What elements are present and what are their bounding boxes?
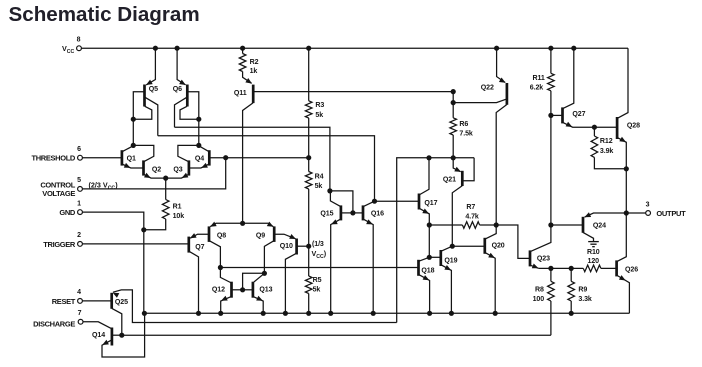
resistor R4 bbox=[305, 172, 312, 190]
arrow Q26 emitter (NPN) bbox=[619, 275, 626, 280]
junction rail / R5 bottom bbox=[306, 311, 311, 316]
svg-text:TRIGGER: TRIGGER bbox=[43, 240, 76, 249]
transistor Q15 base bar bbox=[340, 205, 343, 220]
junction rail / Q13 emitter bbox=[261, 311, 266, 316]
svg-text:Q9: Q9 bbox=[256, 233, 265, 240]
junction VCC rail / Q6 emitter bbox=[175, 46, 180, 51]
wire R6 bottom lead bbox=[452, 135, 454, 158]
wire Q6 emitter from VCC bbox=[177, 48, 186, 85]
junction R11 / Q27 base bbox=[548, 113, 553, 118]
svg-text:8: 8 bbox=[77, 37, 81, 44]
transistor Q24 base bar bbox=[582, 217, 585, 233]
junction Q16 collector node bbox=[372, 199, 377, 204]
svg-text:Q25: Q25 bbox=[115, 299, 128, 306]
svg-text:5k: 5k bbox=[315, 112, 323, 119]
wire R6 top lead bbox=[452, 103, 454, 118]
wire R7 right lead bbox=[480, 224, 497, 226]
wire Q25 collector bbox=[112, 308, 122, 335]
svg-text:Q5: Q5 bbox=[149, 86, 158, 93]
wire Q5 collector east to Q16 node bbox=[158, 136, 375, 201]
wire R5 bottom lead bbox=[308, 294, 310, 314]
svg-text:Q26: Q26 bbox=[625, 267, 638, 274]
wire R7 left lead bbox=[429, 224, 462, 226]
wire R3 bottom lead bbox=[308, 118, 310, 158]
wire discharge riser bbox=[397, 158, 474, 323]
svg-text:3: 3 bbox=[646, 201, 650, 208]
wire Q8 collector bbox=[209, 241, 220, 268]
wire Q5 emitter from VCC bbox=[146, 48, 155, 85]
wire R4 bottom lead bbox=[308, 189, 310, 246]
junction node A / Q1-Q2 collectors bbox=[131, 143, 136, 148]
junction VCC rail / R3 bbox=[306, 46, 311, 51]
resistor R1 bbox=[162, 200, 169, 220]
wire Q4 collector bbox=[199, 146, 210, 152]
junction Q15/Q16 bases bbox=[350, 210, 355, 215]
wire Q23 emitter bbox=[530, 265, 539, 268]
junction R9 top bbox=[569, 266, 574, 271]
junction rail / gnd column / Q14 emitter bbox=[142, 311, 147, 316]
junction Q15 collector node bbox=[327, 188, 332, 193]
wire R12 bottom lead bbox=[594, 157, 626, 168]
transistor Q22 base bar bbox=[506, 83, 509, 105]
svg-text:Q23: Q23 bbox=[537, 256, 550, 263]
junction Q11 base / Q22 base upper bbox=[451, 89, 456, 94]
pin 7 DISCHARGE terminal bbox=[78, 319, 83, 324]
junction rail / Q12 emitter bbox=[218, 311, 223, 316]
wire Q20 collector node to Q23 base bbox=[496, 225, 530, 258]
svg-text:3.3k: 3.3k bbox=[578, 296, 591, 303]
wire Q24 base bbox=[551, 224, 583, 226]
resistor R11 bbox=[548, 73, 555, 91]
svg-text:(1/3: (1/3 bbox=[312, 241, 324, 248]
wire R11 top lead bbox=[550, 48, 552, 73]
wire Q21 collector bbox=[452, 186, 462, 246]
wire Q17 emitter node down bbox=[428, 225, 430, 257]
transistor Q11 base bar bbox=[252, 85, 255, 104]
wire Q2 emitter bbox=[144, 174, 166, 178]
wire R10 to Q26 base bbox=[601, 267, 617, 269]
wire Q4 emitter to Q3 base bbox=[189, 164, 209, 168]
junction VCC rail / R2 bbox=[240, 46, 245, 51]
junction rail / Q18 emitter bbox=[427, 311, 432, 316]
arrow Q19 emitter (NPN) bbox=[444, 265, 451, 270]
resistor R8 bbox=[548, 281, 555, 301]
arrow Q28 emitter (NPN) bbox=[619, 137, 626, 142]
transistor Q5 base bar bbox=[143, 85, 146, 107]
wire Q9 collector bbox=[264, 241, 274, 274]
wire Q8 collector node east to Q18 base bbox=[220, 267, 418, 269]
transistor Q9 base bar bbox=[273, 226, 276, 242]
wire Q25 emitter bbox=[113, 290, 397, 323]
svg-text:Q28: Q28 bbox=[627, 123, 640, 130]
wire gnd pin to ground rail bbox=[82, 212, 143, 313]
wire Q3 collector bbox=[178, 145, 199, 161]
svg-text:100: 100 bbox=[533, 296, 545, 303]
arrow Q7 emitter (PNP) bbox=[190, 233, 197, 238]
wire VCC rail bbox=[81, 47, 628, 49]
transistor Q25 base bar bbox=[110, 293, 113, 309]
svg-text:Q6: Q6 bbox=[173, 86, 182, 93]
wire Q10 base bbox=[297, 245, 309, 247]
arrow Q3 emitter (NPN) bbox=[182, 173, 189, 178]
transistor Q17 base bar bbox=[418, 194, 421, 210]
arrow Q9 emitter (PNP) bbox=[267, 222, 274, 227]
svg-text:THRESHOLD: THRESHOLD bbox=[31, 154, 75, 163]
junction Q17 emitter / R7 node bbox=[427, 222, 432, 227]
wire Q5 collector tie hook bbox=[133, 106, 152, 119]
svg-text:Q10: Q10 bbox=[280, 243, 293, 250]
resistor R3 bbox=[305, 101, 312, 118]
arrow Q27 emitter (NPN) bbox=[566, 122, 573, 127]
arrow Q17 emitter (NPN) bbox=[422, 208, 429, 213]
wire Q16 base bbox=[353, 212, 363, 214]
junction rail / Q20 emitter bbox=[493, 311, 498, 316]
junction Q28 base / R12 top bbox=[592, 125, 597, 130]
wire Q9 emitter bbox=[243, 223, 274, 226]
svg-text:Q24: Q24 bbox=[593, 223, 606, 230]
wire Q1 emitter to Q2 base bbox=[122, 164, 144, 168]
wire output column bbox=[625, 169, 627, 213]
resistor R5 bbox=[305, 276, 312, 294]
transistor Q26 base bar bbox=[615, 260, 618, 276]
pin 5 CONTROL VOLTAGE terminal bbox=[78, 187, 83, 192]
arrow Q18 emitter (NPN) bbox=[423, 275, 430, 280]
svg-text:R9: R9 bbox=[578, 286, 587, 293]
arrow Q24 emitter (PNP) bbox=[584, 212, 591, 217]
wire R8 bottom west to Q14 base bbox=[122, 334, 551, 336]
wire 2/3Vcc node to divider bbox=[226, 157, 309, 159]
svg-text:R3: R3 bbox=[315, 102, 324, 109]
junction Q18 collector / Q19 base bbox=[427, 255, 432, 260]
junction VCC rail / Q5 emitter bbox=[153, 46, 158, 51]
junction discharge line / R6 / Q21 emitter bbox=[451, 155, 456, 160]
transistor Q8 base bar bbox=[208, 226, 211, 242]
wire Q22 base bbox=[453, 99, 506, 102]
junction rail / Q7 collector bbox=[196, 311, 201, 316]
wire Q3 emitter bbox=[166, 174, 189, 178]
transistor Q13 base bar bbox=[252, 282, 255, 298]
arrow Q1 emitter (NPN) bbox=[124, 163, 131, 168]
arrow Q25 emitter (PNP) bbox=[113, 293, 120, 298]
wire Q13 collector bbox=[254, 273, 265, 282]
transistor Q10 base bar bbox=[295, 239, 298, 255]
svg-text:VCC): VCC) bbox=[312, 249, 327, 260]
wire Q20 base bbox=[452, 245, 485, 247]
arrow Q11 emitter (PNP) bbox=[245, 78, 252, 84]
wire Q6 collector east to Q15 node bbox=[175, 127, 330, 191]
svg-text:Q13: Q13 bbox=[259, 287, 272, 294]
wire discharge to Q14 collector bbox=[83, 322, 111, 329]
wire R4 top lead bbox=[308, 158, 310, 172]
wire R5 top lead bbox=[308, 246, 310, 276]
wire Q5 second collector down bbox=[145, 97, 158, 136]
wire control voltage to node bbox=[82, 158, 225, 189]
wire Q26 collector bbox=[617, 213, 627, 262]
wire Q11 base east bbox=[253, 91, 453, 93]
svg-text:5k: 5k bbox=[315, 183, 323, 190]
svg-text:Q11: Q11 bbox=[234, 90, 247, 97]
junction Q24 base node bbox=[548, 222, 553, 227]
svg-text:Q22: Q22 bbox=[481, 85, 494, 92]
junction VCC rail / R11 bbox=[548, 46, 553, 51]
transistor Q21 base bar bbox=[461, 171, 464, 186]
svg-text:Q1: Q1 bbox=[127, 156, 136, 163]
junction node B / Q3-Q4 collectors bbox=[196, 143, 201, 148]
transistor Q18 base bar bbox=[417, 260, 420, 276]
wire Q27 emitter to Q28 base bbox=[563, 122, 618, 127]
wire Q8 base to Q7 emitter bbox=[190, 234, 209, 238]
wire Q13 base bbox=[243, 289, 253, 291]
wire R12 top lead bbox=[593, 127, 595, 136]
wire Q23 emitter to R10 bbox=[539, 267, 584, 269]
svg-text:R2: R2 bbox=[250, 59, 259, 66]
resistor R7 bbox=[462, 222, 479, 229]
wire Q18 collector bbox=[419, 257, 430, 261]
svg-text:Q18: Q18 bbox=[421, 267, 434, 274]
wire Q22 emitter bbox=[497, 48, 506, 82]
svg-text:R10: R10 bbox=[587, 249, 600, 256]
svg-text:1k: 1k bbox=[250, 68, 258, 75]
wire Q17 emitter bbox=[419, 208, 429, 225]
wire Q7 collector bbox=[189, 251, 199, 313]
wire Q15 emitter bbox=[331, 219, 341, 313]
wire Q19 collector bbox=[441, 246, 453, 251]
wire Q11 base junction column bbox=[452, 92, 454, 103]
junction Q8/Q9 emitters from Q11 bbox=[240, 221, 245, 226]
junction VCC rail / Q27 collector bbox=[571, 46, 576, 51]
arrow Q23 emitter (NPN) bbox=[532, 263, 539, 268]
svg-text:4.7k: 4.7k bbox=[465, 213, 478, 220]
wire R2 bottom to Q11 emitter bbox=[243, 72, 252, 84]
wire R2 top lead bbox=[242, 48, 244, 53]
svg-text:GND: GND bbox=[59, 208, 76, 217]
wire node A column bbox=[132, 119, 134, 145]
svg-text:6: 6 bbox=[77, 146, 81, 153]
svg-text:Q17: Q17 bbox=[424, 200, 437, 207]
wire Q19 base bbox=[429, 256, 441, 258]
transistor Q2 base bar bbox=[142, 160, 145, 175]
wire R11/Q27 column down bbox=[550, 115, 552, 225]
wire Q12 base bbox=[232, 289, 243, 291]
svg-text:4: 4 bbox=[77, 289, 81, 296]
resistor R6 bbox=[450, 118, 457, 135]
arrow Q4 emitter (NPN) bbox=[201, 163, 208, 168]
wire Q16 collector bbox=[363, 201, 375, 207]
svg-text:3.9k: 3.9k bbox=[600, 148, 613, 155]
wire R1 bottom lead bbox=[144, 219, 166, 230]
wire Q24 emitter bbox=[585, 213, 627, 217]
wire Q20 collector bbox=[485, 225, 496, 239]
pin 8 VCC terminal bbox=[77, 46, 82, 51]
arrow Q5 emitter (PNP) bbox=[146, 80, 153, 85]
wire R1 top lead bbox=[165, 178, 167, 199]
resistor R10 bbox=[583, 265, 601, 272]
svg-text:7: 7 bbox=[78, 310, 82, 317]
wire Q2 collector bbox=[133, 145, 154, 161]
transistor Q4 base bar bbox=[208, 150, 211, 165]
wire R8 bottom lead crossing rail bbox=[550, 301, 552, 335]
wire ground rail bbox=[144, 312, 630, 314]
junction control voltage / Q4 base bbox=[223, 155, 228, 160]
wire R3 top lead bbox=[308, 48, 310, 101]
svg-text:2: 2 bbox=[77, 232, 81, 239]
svg-text:Q7: Q7 bbox=[195, 244, 204, 251]
wire Q13 emitter bbox=[253, 296, 263, 313]
svg-text:Q2: Q2 bbox=[152, 167, 161, 174]
junction rail / Q15 emitter bbox=[328, 311, 333, 316]
junction output node bbox=[624, 210, 629, 215]
wire Q6 collector tie hook bbox=[180, 106, 199, 119]
svg-text:7.5k: 7.5k bbox=[459, 130, 472, 137]
svg-text:Q4: Q4 bbox=[195, 156, 204, 163]
arrow Q16 emitter (NPN) bbox=[366, 219, 373, 224]
wire node B column bbox=[198, 119, 200, 145]
transistor Q23 base bar bbox=[529, 250, 532, 266]
wire R9 top lead bbox=[570, 268, 572, 281]
junction Q28 emitter / R12 bottom bbox=[624, 166, 629, 171]
wire R9 bottom lead bbox=[570, 301, 572, 313]
svg-text:Q3: Q3 bbox=[173, 167, 182, 174]
transistor Q1 base bar bbox=[121, 150, 124, 165]
wire Q15 base tie loop bbox=[330, 191, 353, 213]
transistor Q6 base bar bbox=[186, 85, 189, 107]
transistor Q16 base bar bbox=[362, 205, 365, 220]
junction gnd column / R1 bottom bbox=[141, 227, 146, 232]
junction discharge line / Q17 collector bbox=[426, 155, 431, 160]
wire R8 top lead bbox=[550, 268, 552, 281]
svg-text:Q8: Q8 bbox=[217, 233, 226, 240]
svg-text:Q20: Q20 bbox=[492, 243, 505, 250]
arrow Q21 emitter (PNP) bbox=[454, 167, 461, 172]
wire Q19 emitter bbox=[441, 265, 452, 314]
junction R7 / Q22 collector / Q20 collector bbox=[494, 222, 499, 227]
junction Q22 base / R6 top bbox=[451, 100, 456, 105]
svg-text:5: 5 bbox=[77, 177, 81, 184]
junction Q13 collector node bbox=[262, 271, 267, 276]
arrow Q15 emitter (NPN) bbox=[331, 219, 338, 224]
svg-text:Q15: Q15 bbox=[320, 211, 333, 218]
pin 2 TRIGGER terminal bbox=[78, 242, 83, 247]
wire Q15 base bbox=[341, 212, 353, 214]
svg-text:VOLTAGE: VOLTAGE bbox=[42, 189, 75, 198]
junction R3/R4 divider tap bbox=[306, 155, 311, 160]
arrow Q6 emitter (PNP) bbox=[179, 80, 186, 85]
arrow Q12 emitter (NPN) bbox=[221, 296, 228, 301]
junction 1/3 Vcc node bbox=[306, 244, 311, 249]
wire Q10 collector bbox=[285, 253, 296, 313]
wire Q13 collector-base tie bbox=[243, 273, 265, 290]
svg-text:1: 1 bbox=[77, 200, 81, 207]
transistor Q28 base bar bbox=[616, 117, 619, 139]
svg-text:DISCHARGE: DISCHARGE bbox=[33, 319, 75, 328]
transistor Q20 base bar bbox=[483, 238, 486, 254]
junction rail / Q10 collector bbox=[283, 311, 288, 316]
svg-text:R1: R1 bbox=[173, 204, 182, 211]
svg-text:5k: 5k bbox=[313, 286, 321, 293]
wire Q5 base bbox=[133, 92, 144, 120]
wire Q27 base bbox=[551, 114, 563, 116]
transistor Q14 base bar bbox=[111, 328, 114, 346]
wire Q8 emitter bbox=[210, 223, 242, 226]
svg-text:R4: R4 bbox=[315, 174, 324, 181]
arrow Q13 emitter (NPN) bbox=[256, 296, 263, 301]
transistor Q7 base bar bbox=[187, 237, 190, 253]
wire reset to Q25 base bbox=[82, 300, 111, 302]
wire R11 bottom lead bbox=[550, 91, 552, 116]
junction rail / Q19 emitter bbox=[449, 311, 454, 316]
svg-text:Q12: Q12 bbox=[212, 287, 225, 294]
resistor R9 bbox=[568, 281, 575, 301]
wire Q23 collector bbox=[530, 225, 551, 252]
junction Q12/Q13 bases bbox=[240, 287, 245, 292]
arrow Q2 emitter (NPN) bbox=[144, 173, 151, 178]
junction Q14 base / Q25 collector / R8 wire bbox=[119, 333, 124, 338]
pin 4 RESET terminal bbox=[78, 299, 83, 304]
svg-text:OUTPUT: OUTPUT bbox=[656, 209, 686, 218]
junction Q19 collector / Q21 collector / Q20 base bbox=[450, 244, 455, 249]
wire Q21 base loop bbox=[462, 158, 474, 181]
svg-text:Q16: Q16 bbox=[371, 211, 384, 218]
junction rail / Q16 emitter bbox=[371, 311, 376, 316]
wire Q24 collector bbox=[583, 232, 594, 241]
svg-text:6.2k: 6.2k bbox=[530, 85, 543, 92]
junction rail / R9 bottom bbox=[569, 311, 574, 316]
pin 1 GND terminal bbox=[78, 210, 83, 215]
svg-text:RESET: RESET bbox=[52, 297, 76, 306]
pin 3 OUTPUT terminal bbox=[646, 211, 651, 216]
transistor Q27 base bar bbox=[561, 107, 564, 123]
wire Q1 collector bbox=[122, 146, 133, 152]
wire Q21 emitter bbox=[453, 158, 460, 172]
svg-text:R6: R6 bbox=[459, 121, 468, 128]
wire Q17 collector bbox=[419, 158, 429, 195]
wire Q14 emitter wrap bbox=[102, 313, 145, 357]
svg-text:(2/3 VCC): (2/3 VCC) bbox=[89, 181, 119, 192]
svg-text:10k: 10k bbox=[173, 213, 185, 220]
wire threshold to Q1 base bbox=[82, 157, 122, 159]
svg-text:Q14: Q14 bbox=[92, 332, 105, 339]
svg-text:Q21: Q21 bbox=[443, 177, 456, 184]
wire Q22 collector bbox=[496, 105, 507, 225]
svg-text:R5: R5 bbox=[313, 277, 322, 284]
svg-text:Q19: Q19 bbox=[444, 258, 457, 265]
svg-text:Q27: Q27 bbox=[572, 111, 585, 118]
wire Q20 emitter bbox=[485, 252, 495, 313]
wire Q12 collector bbox=[220, 268, 231, 284]
resistor R2 bbox=[239, 54, 246, 72]
svg-text:R7: R7 bbox=[466, 204, 475, 211]
transistor Q12 base bar bbox=[230, 282, 233, 298]
svg-text:R12: R12 bbox=[600, 138, 613, 145]
arrow Q8 emitter (PNP) bbox=[210, 222, 217, 227]
arrow Q20 emitter (NPN) bbox=[488, 253, 495, 258]
arrow Q22 emitter (PNP) bbox=[499, 77, 506, 82]
wire Q28 emitter bbox=[617, 137, 626, 168]
junction Q6 base/collector node bbox=[196, 117, 201, 122]
wire Q14 base bbox=[112, 334, 122, 336]
pin 6 THRESHOLD terminal bbox=[78, 155, 83, 160]
wire Q6 second collector down bbox=[175, 97, 188, 127]
wire Q15 collector bbox=[330, 191, 341, 207]
ground symbol bbox=[588, 242, 599, 247]
wire Q16 emitter bbox=[363, 219, 373, 313]
wire Q28 collector bbox=[617, 48, 628, 118]
wire Q6 base bbox=[187, 92, 199, 120]
resistor R12 bbox=[591, 136, 598, 157]
svg-text:Schematic Diagram: Schematic Diagram bbox=[9, 3, 200, 26]
junction R8 top bbox=[548, 266, 553, 271]
wire Q27 collector bbox=[563, 48, 574, 108]
